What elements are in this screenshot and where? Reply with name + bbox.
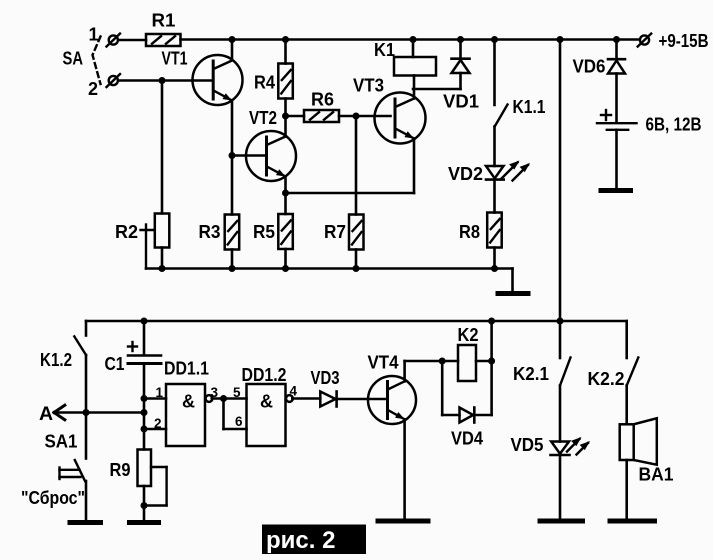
resistor R4 <box>278 64 293 99</box>
wire R2 top lead <box>161 81 164 214</box>
wire VT3 emitter down <box>413 139 416 194</box>
svg-text:VT3: VT3 <box>353 76 384 96</box>
svg-text:6: 6 <box>235 414 243 429</box>
wire R6 left <box>286 115 305 118</box>
svg-text:VD1: VD1 <box>443 92 479 112</box>
capacitor C1 <box>128 321 161 450</box>
wire VT2 base <box>232 154 265 157</box>
wire pin 6 loop <box>224 399 247 430</box>
svg-text:K1.1: K1.1 <box>513 97 546 117</box>
svg-text:R6: R6 <box>311 90 334 110</box>
svg-text:R2: R2 <box>115 222 138 242</box>
wire R5 top lead <box>284 193 287 214</box>
node: junction wire2/R2 <box>159 77 166 84</box>
wire K2 branch to rail <box>490 321 493 361</box>
node: rail/down wire <box>557 318 564 325</box>
svg-text:R4: R4 <box>254 73 276 93</box>
transistor VT2 <box>246 131 296 181</box>
node: A wire / K1.2 <box>83 409 90 416</box>
node: C1 line / pin1 <box>141 395 148 402</box>
wire pin 2 <box>144 428 166 431</box>
loudspeaker BA1 <box>620 418 657 519</box>
wire VT3 collector up to K1 <box>413 76 416 99</box>
wire VT1 emitter down to R3 <box>231 101 234 215</box>
svg-text:VT1: VT1 <box>162 48 188 68</box>
resistor R7 <box>349 215 364 250</box>
diode VD1 <box>452 40 470 90</box>
svg-text:VD5: VD5 <box>511 435 544 455</box>
caption fig.2 <box>262 525 366 555</box>
svg-text:R7: R7 <box>324 222 346 242</box>
wire VT4 collector up <box>403 361 406 381</box>
node: A wire / C1 line <box>141 409 148 416</box>
node: rail/K1.1 <box>491 36 498 43</box>
resistor R6 <box>304 110 339 122</box>
svg-text:1: 1 <box>156 385 164 400</box>
svg-text:R3: R3 <box>199 222 221 242</box>
wire R7 bottom lead <box>355 250 358 269</box>
node: rail/VD6 <box>613 36 620 43</box>
wire VD1 to K1 bottom <box>413 88 461 91</box>
svg-text:SA1: SA1 <box>45 432 78 452</box>
wire R4 top lead <box>284 40 287 64</box>
node: rail/K1 <box>410 36 417 43</box>
svg-text:рис. 2: рис. 2 <box>266 527 335 554</box>
node: rail/VD1 <box>457 36 464 43</box>
svg-text:3: 3 <box>211 385 219 400</box>
logic gate DD1.1 <box>166 384 212 446</box>
transistor VT4 <box>368 376 416 424</box>
node: K2/VD4 right <box>488 358 495 365</box>
ground (BA1) <box>610 519 655 524</box>
svg-text:"Сброс": "Сброс" <box>21 488 85 508</box>
contact K1.2 <box>74 321 86 413</box>
node: C1 line / pin2 <box>141 426 148 433</box>
node: rail/down wire <box>557 36 564 43</box>
relay coil K1 <box>394 57 436 76</box>
terminal +9-15V <box>638 34 652 47</box>
wire lower section supply rail <box>86 320 627 323</box>
svg-text:VT2: VT2 <box>249 108 277 128</box>
node: R4/R6/VT2 collector <box>282 113 289 120</box>
node: R5/ground rail <box>282 265 289 272</box>
diode VD4 <box>442 361 491 423</box>
wire R7 top lead <box>355 116 358 215</box>
wire VD2 to R8 <box>493 180 496 213</box>
resistor R9 (trimmer) <box>138 450 167 506</box>
svg-text:2: 2 <box>154 416 162 431</box>
wire terminal1 to R1 <box>118 39 146 42</box>
relay coil K2 <box>458 345 476 381</box>
wire VD5 down <box>559 455 562 519</box>
node: R9 tap / bottom <box>141 502 148 509</box>
svg-text:A: A <box>39 403 53 425</box>
contact K2.2 <box>627 321 639 424</box>
contact K1.1 <box>495 40 508 167</box>
wire R9 bottom lead <box>143 486 146 521</box>
svg-text:K1: K1 <box>374 40 395 60</box>
svg-text:K1.2: K1.2 <box>40 350 72 370</box>
node: R8/ground rail <box>491 265 498 272</box>
node: R3/ground rail <box>229 265 236 272</box>
svg-text:R8: R8 <box>459 222 480 242</box>
switch SA mechanical link (dashed) <box>93 37 101 85</box>
node: rail/VT1 collector <box>229 36 236 43</box>
wire VT2 emitter down <box>284 177 287 194</box>
svg-text:5: 5 <box>233 385 241 400</box>
transistor VT1 <box>193 55 243 105</box>
wire K2 right <box>476 360 492 363</box>
node: rail/R4 <box>282 36 289 43</box>
svg-text:4: 4 <box>290 384 298 399</box>
wire VD3 to VT4 base <box>337 398 386 401</box>
wire ground rail (top section) <box>146 267 513 270</box>
node: R2/ground rail <box>159 265 166 272</box>
ground (top section) <box>498 291 528 296</box>
svg-text:2: 2 <box>88 79 98 99</box>
terminal 2 <box>107 74 121 87</box>
terminal 1 <box>107 34 121 47</box>
node: R7/ground rail <box>353 265 360 272</box>
ground (VD5) <box>540 519 583 524</box>
wire K1 top to rail <box>412 40 415 58</box>
wire R5 bottom lead <box>284 249 287 269</box>
svg-text:+9-15В: +9-15В <box>659 31 709 51</box>
ground (VT4) <box>378 519 428 524</box>
battery GB1 <box>597 110 637 188</box>
wire VT4 collector to K2 <box>405 360 458 363</box>
contact K2.1 <box>560 321 571 442</box>
wire pin 3 output <box>212 397 247 400</box>
wire pin 1 <box>144 397 166 400</box>
LED VD5 <box>551 437 591 455</box>
wire VT2 collector up <box>284 116 287 137</box>
wire emitter bus VT2-VT3 <box>286 192 415 195</box>
wire R6 right to VT3 base <box>339 115 391 118</box>
resistor R3 <box>225 215 240 250</box>
transistor VT3 <box>375 93 426 144</box>
ground (R9) <box>130 520 159 525</box>
svg-text:DD1.2: DD1.2 <box>242 365 287 385</box>
wire terminal 2 to VT1 base <box>118 79 211 82</box>
wire R8 bottom lead <box>493 248 496 269</box>
svg-text:1: 1 <box>89 25 99 45</box>
svg-text:VD2: VD2 <box>448 164 483 184</box>
svg-text:DD1.1: DD1.1 <box>164 359 209 379</box>
svg-text:VD3: VD3 <box>311 368 340 388</box>
wire ground stub <box>511 269 514 293</box>
node: K2/VD4 left <box>439 358 446 365</box>
svg-text:K2.2: K2.2 <box>588 369 625 389</box>
wire rail to lower section <box>559 40 562 322</box>
wire R3 bottom lead <box>231 250 234 269</box>
diode VD3 <box>320 392 336 407</box>
node: R6/R7/VT3 base <box>353 113 360 120</box>
svg-text:SA: SA <box>63 49 84 69</box>
svg-text:K2.1: K2.1 <box>513 364 549 384</box>
wire VT1 collector to rail <box>231 40 234 59</box>
svg-text:BA1: BA1 <box>639 465 674 485</box>
wire VT4 emitter down <box>403 419 406 519</box>
diode VD6 <box>608 40 625 123</box>
svg-text:VD6: VD6 <box>573 57 606 77</box>
wire R4 bottom lead <box>284 99 287 117</box>
resistor R1 <box>146 34 181 46</box>
node: VT2 emitter junction <box>282 190 289 197</box>
resistor R5 <box>278 214 293 249</box>
node: VT1 emitter / VT2 base / R3 <box>229 152 236 159</box>
ground (SA1) <box>70 520 101 525</box>
wire top supply rail <box>181 38 640 41</box>
node: rail/K2 branch <box>488 318 495 325</box>
logic gate DD1.2 <box>247 384 293 446</box>
svg-text:C1: C1 <box>105 354 125 374</box>
svg-text:&: & <box>260 392 273 412</box>
wire pin 4 output <box>292 397 320 400</box>
resistor R8 <box>487 213 502 248</box>
svg-text:K2: K2 <box>458 325 479 345</box>
ground (battery) <box>601 188 631 193</box>
node: rail/C1 <box>141 318 148 325</box>
node A arrow <box>54 405 144 420</box>
svg-text:R5: R5 <box>253 222 275 242</box>
svg-text:R1: R1 <box>152 11 176 31</box>
wire R2 bottom lead <box>161 248 164 269</box>
LED VD2 <box>486 161 530 181</box>
svg-text:6В, 12В: 6В, 12В <box>646 115 702 135</box>
node: pin3/pin5/pin6 <box>220 395 227 402</box>
svg-text:VD4: VD4 <box>451 429 484 449</box>
pushbutton SA1 <box>60 413 87 521</box>
svg-text:&: & <box>182 392 195 412</box>
svg-text:VT4: VT4 <box>368 353 400 373</box>
resistor R2 (trimmer) <box>141 214 170 269</box>
svg-text:R9: R9 <box>110 460 131 480</box>
